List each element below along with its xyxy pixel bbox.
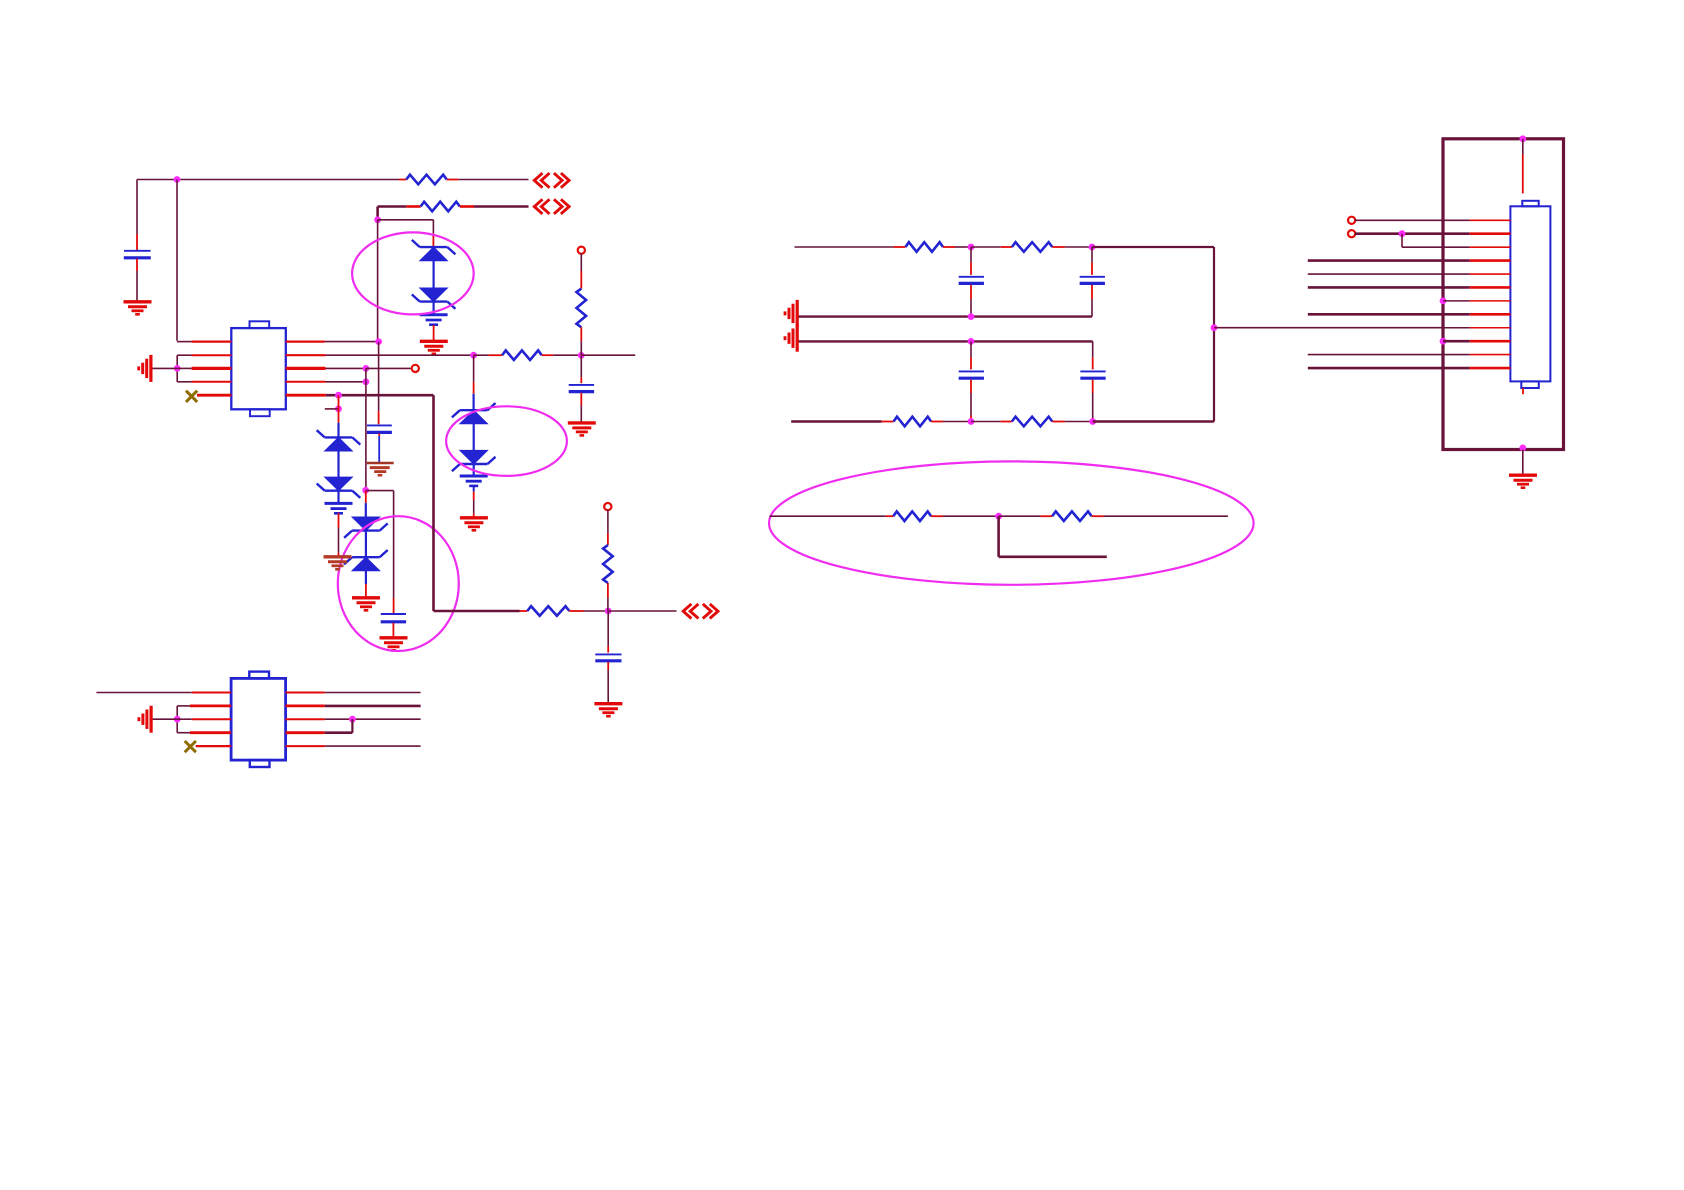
resistor R7 (906, 242, 944, 252)
earth ground (blue) below D2 (420, 315, 448, 325)
wire pin5 node down (338, 395, 340, 437)
wire blue ground to red ground (338, 513, 340, 557)
wire between D1 and D2 (433, 261, 435, 289)
capacitor C9 (1080, 371, 1105, 378)
ground symbol below D4 (352, 598, 380, 611)
wire blue ground to red ground (473, 485, 475, 517)
wire stub from node to D1 branch (378, 220, 434, 234)
ground symbol below D2 (420, 341, 448, 354)
zener diode D4 (344, 550, 388, 571)
U2 pin6 wire (right row5) (286, 745, 421, 747)
wire red pin stub left of R2 (406, 205, 420, 208)
wire vertical pin3/4 net down (365, 368, 367, 490)
U1 pin8 wire (right row3) (286, 367, 366, 370)
capacitor C6 (959, 277, 984, 284)
capacitor C8 top lead (970, 341, 972, 369)
junction node at (1443,301.1) (1440, 297, 1447, 304)
wire between D7 and D8 (473, 424, 475, 451)
wire rc junction to connector (1214, 327, 1443, 329)
wire red stub right of R5 (542, 354, 554, 356)
wire C3 bottom lead (392, 623, 394, 637)
wire red stub left of R9 (882, 421, 894, 423)
junction node at (971,316.6) (968, 313, 975, 320)
zener diode D7 (452, 403, 496, 424)
ground symbol below C5 (568, 423, 596, 436)
wire ground to node U2 (152, 718, 177, 720)
wire J1 row6 (1308, 286, 1511, 289)
wire red stub right of R10 (1052, 421, 1065, 423)
U1 pin7 wire (right row4) (286, 381, 366, 383)
junction node at (1443,341.5) (1440, 338, 1447, 345)
wire top pin lead (1522, 139, 1524, 194)
resistor R12 (1052, 511, 1091, 521)
junction node at (365.7,490.3) (362, 487, 369, 494)
resistor R11 (893, 511, 931, 521)
U2 pin5 wire (left row5) (196, 745, 231, 747)
junction node ground to U1 (174, 365, 181, 372)
wire D4 to ground (365, 571, 367, 597)
no-connect X on U1 pin5 (186, 391, 197, 402)
signal ground mid line 1 (785, 300, 797, 327)
resistor R5 (502, 350, 542, 360)
U1 pin4 wire (left row4) (177, 381, 231, 383)
U2 pin7 wire (right row4) (286, 731, 353, 734)
wire J1 row1 (1355, 219, 1511, 221)
capacitor C8 (959, 371, 984, 378)
junction node at (581.2,355.4) (578, 352, 585, 359)
capacitor C7 (1080, 277, 1105, 284)
ground symbol below D6 (brick) (324, 557, 352, 570)
junction node at (971,247) (968, 244, 975, 251)
junction node at (1092.7,421.5) (1089, 418, 1096, 425)
resistor R10 (1012, 417, 1052, 427)
ground symbol below C2 (brick) (367, 463, 394, 475)
capacitor C6 bottom lead (970, 285, 972, 317)
resistor R1 (406, 175, 447, 185)
wire J1 row3 bracket (1401, 234, 1403, 247)
wire node to C3 (366, 491, 394, 613)
wire net1 top-left horizontal (137, 179, 399, 181)
ellipse highlight big (769, 461, 1254, 584)
wire C2 bottom lead (378, 434, 380, 463)
junction node at (608.2,611) (605, 608, 612, 615)
wire bracket left of U1 (pin2-pin4) (176, 355, 178, 382)
resistor R3 (527, 606, 569, 616)
signal ground left of U2 (139, 706, 151, 733)
wire R6 to junction (580, 327, 582, 355)
wire J1 row5 (1308, 273, 1511, 275)
wire junction to R10 (971, 421, 1001, 423)
wire red stub left of R12 (1041, 515, 1053, 517)
wire red pin stub right of R2 (460, 205, 474, 208)
U2 pin8 wire (right row3) (286, 718, 421, 720)
wire vertical x=433.5 (432, 395, 435, 611)
wire R11 to junction (943, 515, 999, 517)
resistor R9 (894, 417, 932, 427)
wire junction to R12 (999, 515, 1041, 517)
capacitor C5 (569, 385, 594, 392)
earth ground (blue) below D8 (460, 476, 488, 486)
connector J1 body bottom notch (1521, 381, 1539, 388)
wire junction to off-page (608, 610, 676, 612)
U1 pin6 wire (right row5) (286, 394, 434, 397)
terminal open circle top (604, 503, 611, 510)
off-page connector port3 (683, 604, 718, 619)
U2 pin9 wire (right row2) (286, 705, 421, 708)
wire D6 to blue ground (337, 491, 339, 504)
zener diode D1 (412, 240, 456, 261)
capacitor C1 (124, 251, 151, 258)
wire mid line 2 (797, 340, 1092, 342)
wire J1 row9 red stub (1443, 327, 1510, 329)
wire junction down to C5 (580, 355, 582, 383)
capacitor C3 (381, 614, 406, 622)
junction node at (338.5,408.9) (335, 406, 342, 413)
wire red stub right of R7 (943, 246, 955, 248)
junction node at (971,421.5) (968, 418, 975, 425)
wire junction to end (581, 354, 635, 356)
wire D3 top lead (365, 490, 367, 517)
junction node at (365.9,368.4) (363, 365, 370, 372)
IC U2 (231, 672, 286, 767)
capacitor C6 top lead (970, 247, 972, 275)
junction node at (338.5,395.2) (335, 392, 342, 399)
wire red stub left of R7 (894, 246, 906, 248)
wire stub left of node (325, 408, 339, 410)
no-connect X on U2 pin5 (185, 741, 196, 752)
wire net2 row B horizontal (378, 207, 407, 220)
wire net1 to off-page connector (458, 179, 528, 181)
junction node at (1402,233.7) (1399, 230, 1406, 237)
wire red stub right of R8 (1052, 246, 1065, 248)
capacitor C7 top lead (1091, 247, 1093, 275)
earth ground (blue) below D6 (325, 503, 353, 513)
U2 pin2 wire (left row2) (177, 705, 231, 707)
wire bracket right of U2 (351, 719, 353, 733)
junction node at (998.6,516.2) (995, 513, 1002, 520)
IC U1 (231, 321, 285, 416)
terminal open circle row3 (412, 365, 419, 372)
wire red stub right of R11 (931, 515, 943, 517)
wire between D3 and D4 (365, 531, 367, 558)
ground symbol below C1 (124, 302, 152, 315)
ground symbol below C3 (380, 638, 408, 651)
U1 pin10 wire (right row1) (286, 341, 379, 343)
zener diode D8 (452, 450, 496, 471)
wire C5 to ground (580, 393, 582, 422)
wire red pin stub right of R1 (447, 179, 459, 181)
connector outline box (1443, 139, 1564, 450)
wire D2 to ground (433, 302, 435, 315)
wire J1 row4 (1308, 259, 1511, 262)
wire junction to R8 (971, 246, 1001, 248)
junction node at (473.6,355.2) (470, 352, 477, 359)
junction node at (365.9,381.8) (363, 378, 370, 385)
wire net2 to off-page connector (474, 205, 529, 208)
ellipse highlight around D7 D8 (446, 406, 567, 476)
capacitor C4 (595, 654, 621, 660)
junction node at (971,341.4) (968, 338, 975, 345)
wire bottom line to right corner (1093, 420, 1214, 422)
wire vertical net to capacitor C2 (378, 342, 380, 425)
connector J1 body (1510, 206, 1550, 381)
junction node at (177,179.5) (174, 176, 181, 183)
wire red stub left of R5 (489, 354, 503, 356)
ground symbol below D8 (460, 518, 488, 531)
U1 pin2 wire (left row2) (177, 354, 231, 356)
junction node at (377.6,219.8) (374, 216, 381, 223)
resistor R4 (vertical) (603, 545, 613, 583)
wire blue ground to red ground (433, 325, 435, 341)
junction node at (378.6,341.6) (375, 338, 382, 345)
wire R5 to junction (553, 354, 581, 356)
wire J1 row10 (1443, 340, 1510, 343)
junction node top of connector (1519, 135, 1526, 142)
wire red stub left of R11 (886, 515, 894, 517)
junction node bottom of connector (1519, 445, 1526, 452)
U1 pin1 wire (left row1) (177, 341, 231, 343)
junction node at (1214,327.7) (1211, 324, 1218, 331)
wire J1 row12 (1308, 367, 1511, 370)
U1 pin3 wire (left row3) (177, 367, 231, 369)
ground symbol below connector (1509, 475, 1537, 488)
wire C4 to ground (607, 662, 609, 703)
U2 pin4 wire (left row4) (177, 732, 231, 734)
signal ground mid line 2 (785, 325, 797, 352)
wire junction down to C4 (607, 611, 609, 653)
capacitor C7 lower lead (1091, 285, 1093, 317)
wire J1 row3 (1402, 246, 1510, 248)
resistor R8 (1012, 242, 1052, 252)
wire red stub left of R8 (1001, 246, 1012, 248)
wire red stub left of R3 (520, 610, 528, 612)
wire ellipse line left (770, 515, 886, 517)
wire J1 row7 (1443, 300, 1510, 302)
wire R4 to junction (607, 583, 609, 611)
off-page connector port1 (534, 173, 569, 188)
capacitor C8 bottom lead (970, 380, 972, 422)
wire connector to ground (1522, 450, 1524, 475)
ground symbol below C4 (594, 704, 622, 717)
wire row3 to terminal (366, 367, 412, 369)
U1 pin5 wire (left row5) (197, 394, 231, 397)
resistor R2 (421, 202, 460, 212)
zener diode D6 (317, 477, 361, 498)
wire R9 to junction (943, 421, 971, 423)
junction node ground to U2 (174, 716, 181, 723)
U1 pin9 wire (right row2) (286, 354, 474, 356)
wire terminal to R4 (607, 510, 609, 545)
wire red stub right of R9 (931, 421, 943, 423)
wire R3 to junction (584, 610, 609, 612)
resistor R6 (vertical) (577, 289, 587, 328)
wire vertical from node down to U1 pin1 (176, 180, 178, 341)
wire red pin stub left of R1 (399, 179, 406, 181)
U2 pin1 wire (left row1) (96, 692, 231, 694)
wire junction to R5 (474, 354, 489, 356)
wire mid line 1 (797, 315, 1092, 317)
connector J1 body top notch (1522, 201, 1538, 207)
off-page connector port2 (534, 199, 569, 214)
wire node down to U1 pin1 net (377, 220, 379, 342)
ellipse highlight around D3 D4 C3 (338, 516, 459, 651)
signal ground left of U1 (139, 355, 151, 382)
wire red stub right of R12 (1092, 515, 1104, 517)
wire J1 row2 (1355, 232, 1511, 235)
terminal open circle J1 row1 (1348, 217, 1355, 224)
wire rc top line left (795, 246, 894, 248)
capacitor C2 (367, 425, 392, 432)
wire ellipse line right (1104, 515, 1228, 517)
U2 pin10 wire (right row1) (286, 692, 421, 694)
zener diode D2 (412, 288, 456, 309)
wire R10 to junction (1065, 421, 1093, 423)
wire C1 bottom lead (136, 259, 138, 302)
wire red stub left of R10 (1001, 421, 1012, 423)
wire junction down to D7 (473, 355, 475, 410)
zener diode D5 (317, 430, 361, 451)
ellipse highlight around D1 D2 (352, 232, 474, 314)
wire bracket left of U2 (176, 706, 178, 733)
wire red stub right of R3 (569, 610, 583, 612)
wire top-left vertical to capacitor C1 (136, 180, 138, 251)
wire ground to node (152, 367, 177, 369)
terminal open circle pull-up (578, 247, 585, 254)
wire stub down from junction (999, 516, 1107, 557)
wire R8 to junction (1065, 246, 1092, 248)
junction node at (352.4,719.2) (349, 716, 356, 723)
junction node at (1092,247) (1089, 244, 1096, 251)
wire terminal to R6 (580, 253, 582, 288)
wire J1 row11 (1308, 354, 1511, 356)
capacitor C9 top lead (1092, 341, 1094, 369)
wire bottom row to R3 (434, 610, 520, 613)
wire D8 to blue ground (473, 464, 475, 476)
capacitor C9 bottom lead (1092, 380, 1094, 422)
wire bottom pin lead (1522, 388, 1524, 394)
wire D1 top lead (432, 233, 434, 247)
wire J1 row8 (1308, 313, 1511, 316)
wire top line to right corner (1092, 247, 1214, 422)
wire between D5 and D6 (337, 451, 339, 477)
terminal open circle J1 row2 (1348, 230, 1355, 237)
U2 pin3 wire (left row3) (177, 718, 231, 720)
zener diode D3 (344, 517, 388, 538)
wire rc bottom line left (791, 420, 881, 422)
wire R7 to junction (955, 246, 971, 248)
